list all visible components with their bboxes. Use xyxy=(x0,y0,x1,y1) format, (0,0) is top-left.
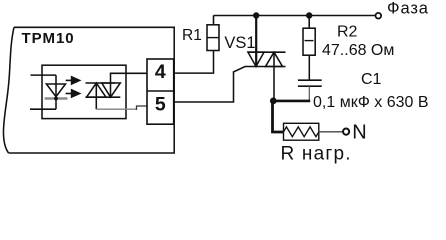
device TRM10 outline xyxy=(3,27,174,153)
opto-triac triangle left xyxy=(87,83,107,97)
wire phase line xyxy=(214,15,376,17)
opto-triac lead right / wire to pin 4 xyxy=(111,73,148,97)
terminal Faza circle xyxy=(376,13,382,19)
opto-triac lead left (down to pin5 wire) xyxy=(95,83,97,109)
svg-text:VS1: VS1 xyxy=(224,34,255,52)
load resistor zigzag xyxy=(284,127,319,137)
triac VS1 xyxy=(247,16,285,100)
wire load node down to load (thick) xyxy=(273,101,284,132)
junction dot VS1 top xyxy=(253,12,259,18)
wire pin 4 to R1 xyxy=(174,51,214,74)
wire LED anode xyxy=(31,74,57,76)
svg-text:C1: C1 xyxy=(361,71,382,88)
svg-text:N: N xyxy=(352,122,366,144)
resistor R1 xyxy=(207,25,219,51)
svg-text:Фаза: Фаза xyxy=(387,0,429,18)
terminal N circle xyxy=(343,129,349,135)
load resistor R load box xyxy=(284,123,319,140)
junction dot LED cathode xyxy=(54,97,58,101)
opto-triac top rail xyxy=(86,82,116,84)
wire VS1 gate to pin 5 xyxy=(174,67,286,103)
junction dot R2 top xyxy=(306,12,312,18)
svg-text:R нагр.: R нагр. xyxy=(281,144,352,165)
svg-text:R1: R1 xyxy=(182,27,202,44)
svg-text:R2: R2 xyxy=(337,24,358,41)
svg-text:ТРМ10: ТРМ10 xyxy=(22,30,75,47)
opto-triac triangle right xyxy=(102,83,121,97)
wire opto-triac to pin 5 xyxy=(96,108,136,110)
svg-text:47..68 Ом: 47..68 Ом xyxy=(322,42,394,59)
capacitor C1 xyxy=(298,55,322,100)
svg-text:5: 5 xyxy=(155,94,166,116)
light arrow 1 xyxy=(66,76,82,86)
light arrow 2 xyxy=(66,89,82,99)
opto-triac bottom rail xyxy=(86,96,121,98)
optocoupler U1 box xyxy=(42,65,126,118)
wire R1 to phase wire xyxy=(213,16,215,25)
wire load to N xyxy=(319,131,343,133)
junction dot load node xyxy=(270,98,277,105)
resistor R2 xyxy=(303,16,315,56)
LED D1 triangle xyxy=(46,84,65,97)
wire LED cathode xyxy=(30,108,56,110)
LED cathode bar xyxy=(45,97,68,100)
wire LED lead vertical xyxy=(55,75,57,109)
svg-text:0,1 мкФ х 630 В: 0,1 мкФ х 630 В xyxy=(313,94,429,111)
svg-text:4: 4 xyxy=(155,61,166,83)
terminal block xyxy=(147,59,174,124)
wire load node to C1 (thick) xyxy=(273,100,310,103)
